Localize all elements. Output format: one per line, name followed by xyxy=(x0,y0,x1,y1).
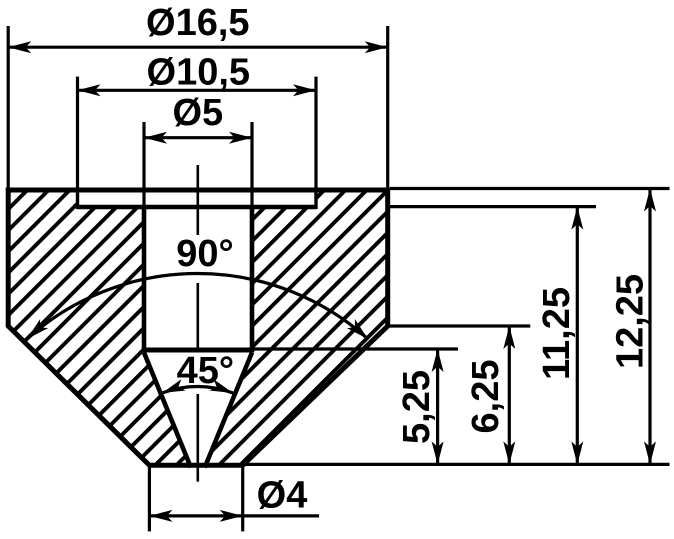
dimension Ø5 line xyxy=(144,136,252,139)
extension line counterbore floor right (11,25) xyxy=(390,205,596,208)
svg-text:Ø16,5: Ø16,5 xyxy=(146,2,250,44)
extension line Ø5 right xyxy=(250,122,253,207)
centerline xyxy=(197,165,200,482)
inner cone left edge xyxy=(144,353,191,468)
extension line shoulder right (5,25) xyxy=(252,347,458,350)
extension line Ø4 left xyxy=(148,467,151,531)
nozzle body outline xyxy=(8,190,388,465)
svg-text:45°: 45° xyxy=(177,350,234,392)
dimension Ø16,5 line xyxy=(8,46,388,49)
extension line Ø10,5 right xyxy=(314,77,317,190)
inner cone right edge xyxy=(205,353,252,468)
90° angle arc xyxy=(27,274,368,339)
extension line Ø10,5 left xyxy=(76,77,79,190)
svg-text:12,25: 12,25 xyxy=(610,274,652,369)
svg-text:6,25: 6,25 xyxy=(465,360,507,434)
dimension 5,25 line xyxy=(436,349,439,464)
svg-text:Ø10,5: Ø10,5 xyxy=(147,52,251,94)
dimension 6,25 line xyxy=(508,326,511,464)
dimension 12,25 line xyxy=(648,189,651,465)
dimension 11,25 line xyxy=(576,207,579,465)
extension line Ø5 left xyxy=(142,122,145,207)
extension line Ø4 right xyxy=(241,467,244,531)
bottom reference extension line xyxy=(243,463,670,466)
svg-text:90°: 90° xyxy=(176,233,233,275)
svg-text:11,25: 11,25 xyxy=(536,287,578,380)
svg-text:5,25: 5,25 xyxy=(396,370,438,444)
extension line top right (12,25) xyxy=(390,187,670,190)
counterbore recess (Ø10,5) walls and floor xyxy=(78,188,317,207)
dimension Ø10,5 line xyxy=(78,89,317,92)
svg-text:Ø4: Ø4 xyxy=(257,475,308,517)
dimension Ø4 line with tail xyxy=(149,514,319,517)
extension line outer corner right (6,25) xyxy=(388,324,530,327)
nozzle body section: hatched material xyxy=(8,190,388,465)
hole shoulder xyxy=(142,348,255,353)
45° angle arc xyxy=(162,386,233,393)
svg-text:Ø5: Ø5 xyxy=(172,92,223,134)
extension line Ø16,5 right xyxy=(386,26,389,190)
hole Ø5 right wall xyxy=(250,207,255,350)
extension line Ø16,5 left xyxy=(7,26,10,190)
hole Ø5 left wall xyxy=(142,207,147,350)
